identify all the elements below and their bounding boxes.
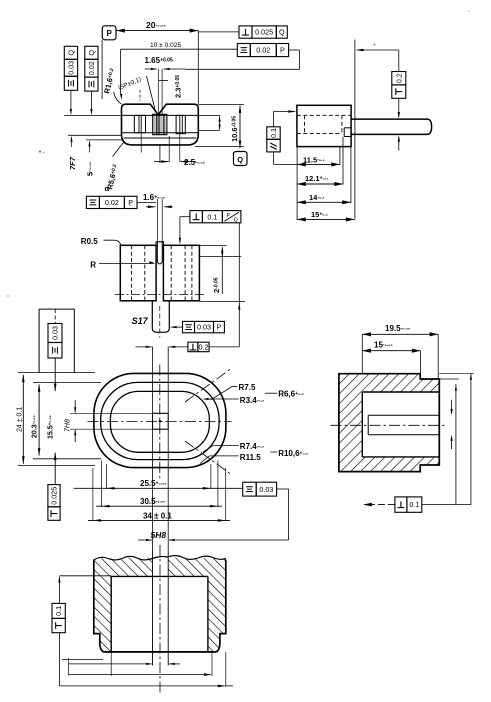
svg-text:0.03: 0.03: [51, 326, 60, 340]
svg-text:0.2: 0.2: [199, 343, 209, 352]
svg-text:0.03: 0.03: [259, 485, 273, 494]
svg-text:0.025: 0.025: [50, 487, 59, 505]
svg-text:Q: Q: [67, 50, 76, 56]
svg-text:Q: Q: [87, 50, 96, 56]
svg-text:0.02: 0.02: [256, 46, 270, 55]
svg-text:R: R: [90, 261, 96, 270]
svg-text:P: P: [217, 323, 222, 332]
svg-text:5H8: 5H8: [151, 530, 167, 540]
svg-text:0.1: 0.1: [269, 128, 278, 138]
svg-text:34 ± 0.1: 34 ± 0.1: [143, 512, 172, 521]
svg-text:Q: Q: [237, 155, 243, 164]
svg-text:0.02: 0.02: [87, 61, 96, 75]
svg-text:0.1: 0.1: [409, 500, 419, 509]
svg-text:P: P: [280, 46, 285, 55]
svg-text:0.03: 0.03: [67, 61, 76, 75]
svg-text:P: P: [227, 213, 231, 219]
svg-text:0.1: 0.1: [54, 606, 63, 616]
svg-text:0.02: 0.02: [105, 198, 119, 207]
svg-text:24 ± 0.1: 24 ± 0.1: [17, 407, 24, 432]
svg-text:α: α: [105, 184, 110, 193]
svg-text:0.03: 0.03: [197, 323, 211, 332]
svg-text:R0.5: R0.5: [81, 237, 98, 246]
svg-text:0.025: 0.025: [255, 28, 273, 37]
svg-text:P: P: [107, 29, 113, 38]
svg-text:0.2: 0.2: [394, 73, 403, 83]
svg-text:S17: S17: [132, 316, 149, 326]
svg-text:10 ± 0.025: 10 ± 0.025: [150, 42, 181, 49]
svg-text:7F7: 7F7: [68, 156, 77, 170]
svg-text:7H8: 7H8: [65, 419, 72, 432]
svg-text:Q: Q: [279, 28, 285, 37]
svg-text:Q: Q: [234, 218, 238, 224]
svg-text:R11.5: R11.5: [240, 453, 261, 462]
svg-text:0.1: 0.1: [207, 212, 217, 221]
svg-text:R7.5: R7.5: [239, 383, 256, 392]
